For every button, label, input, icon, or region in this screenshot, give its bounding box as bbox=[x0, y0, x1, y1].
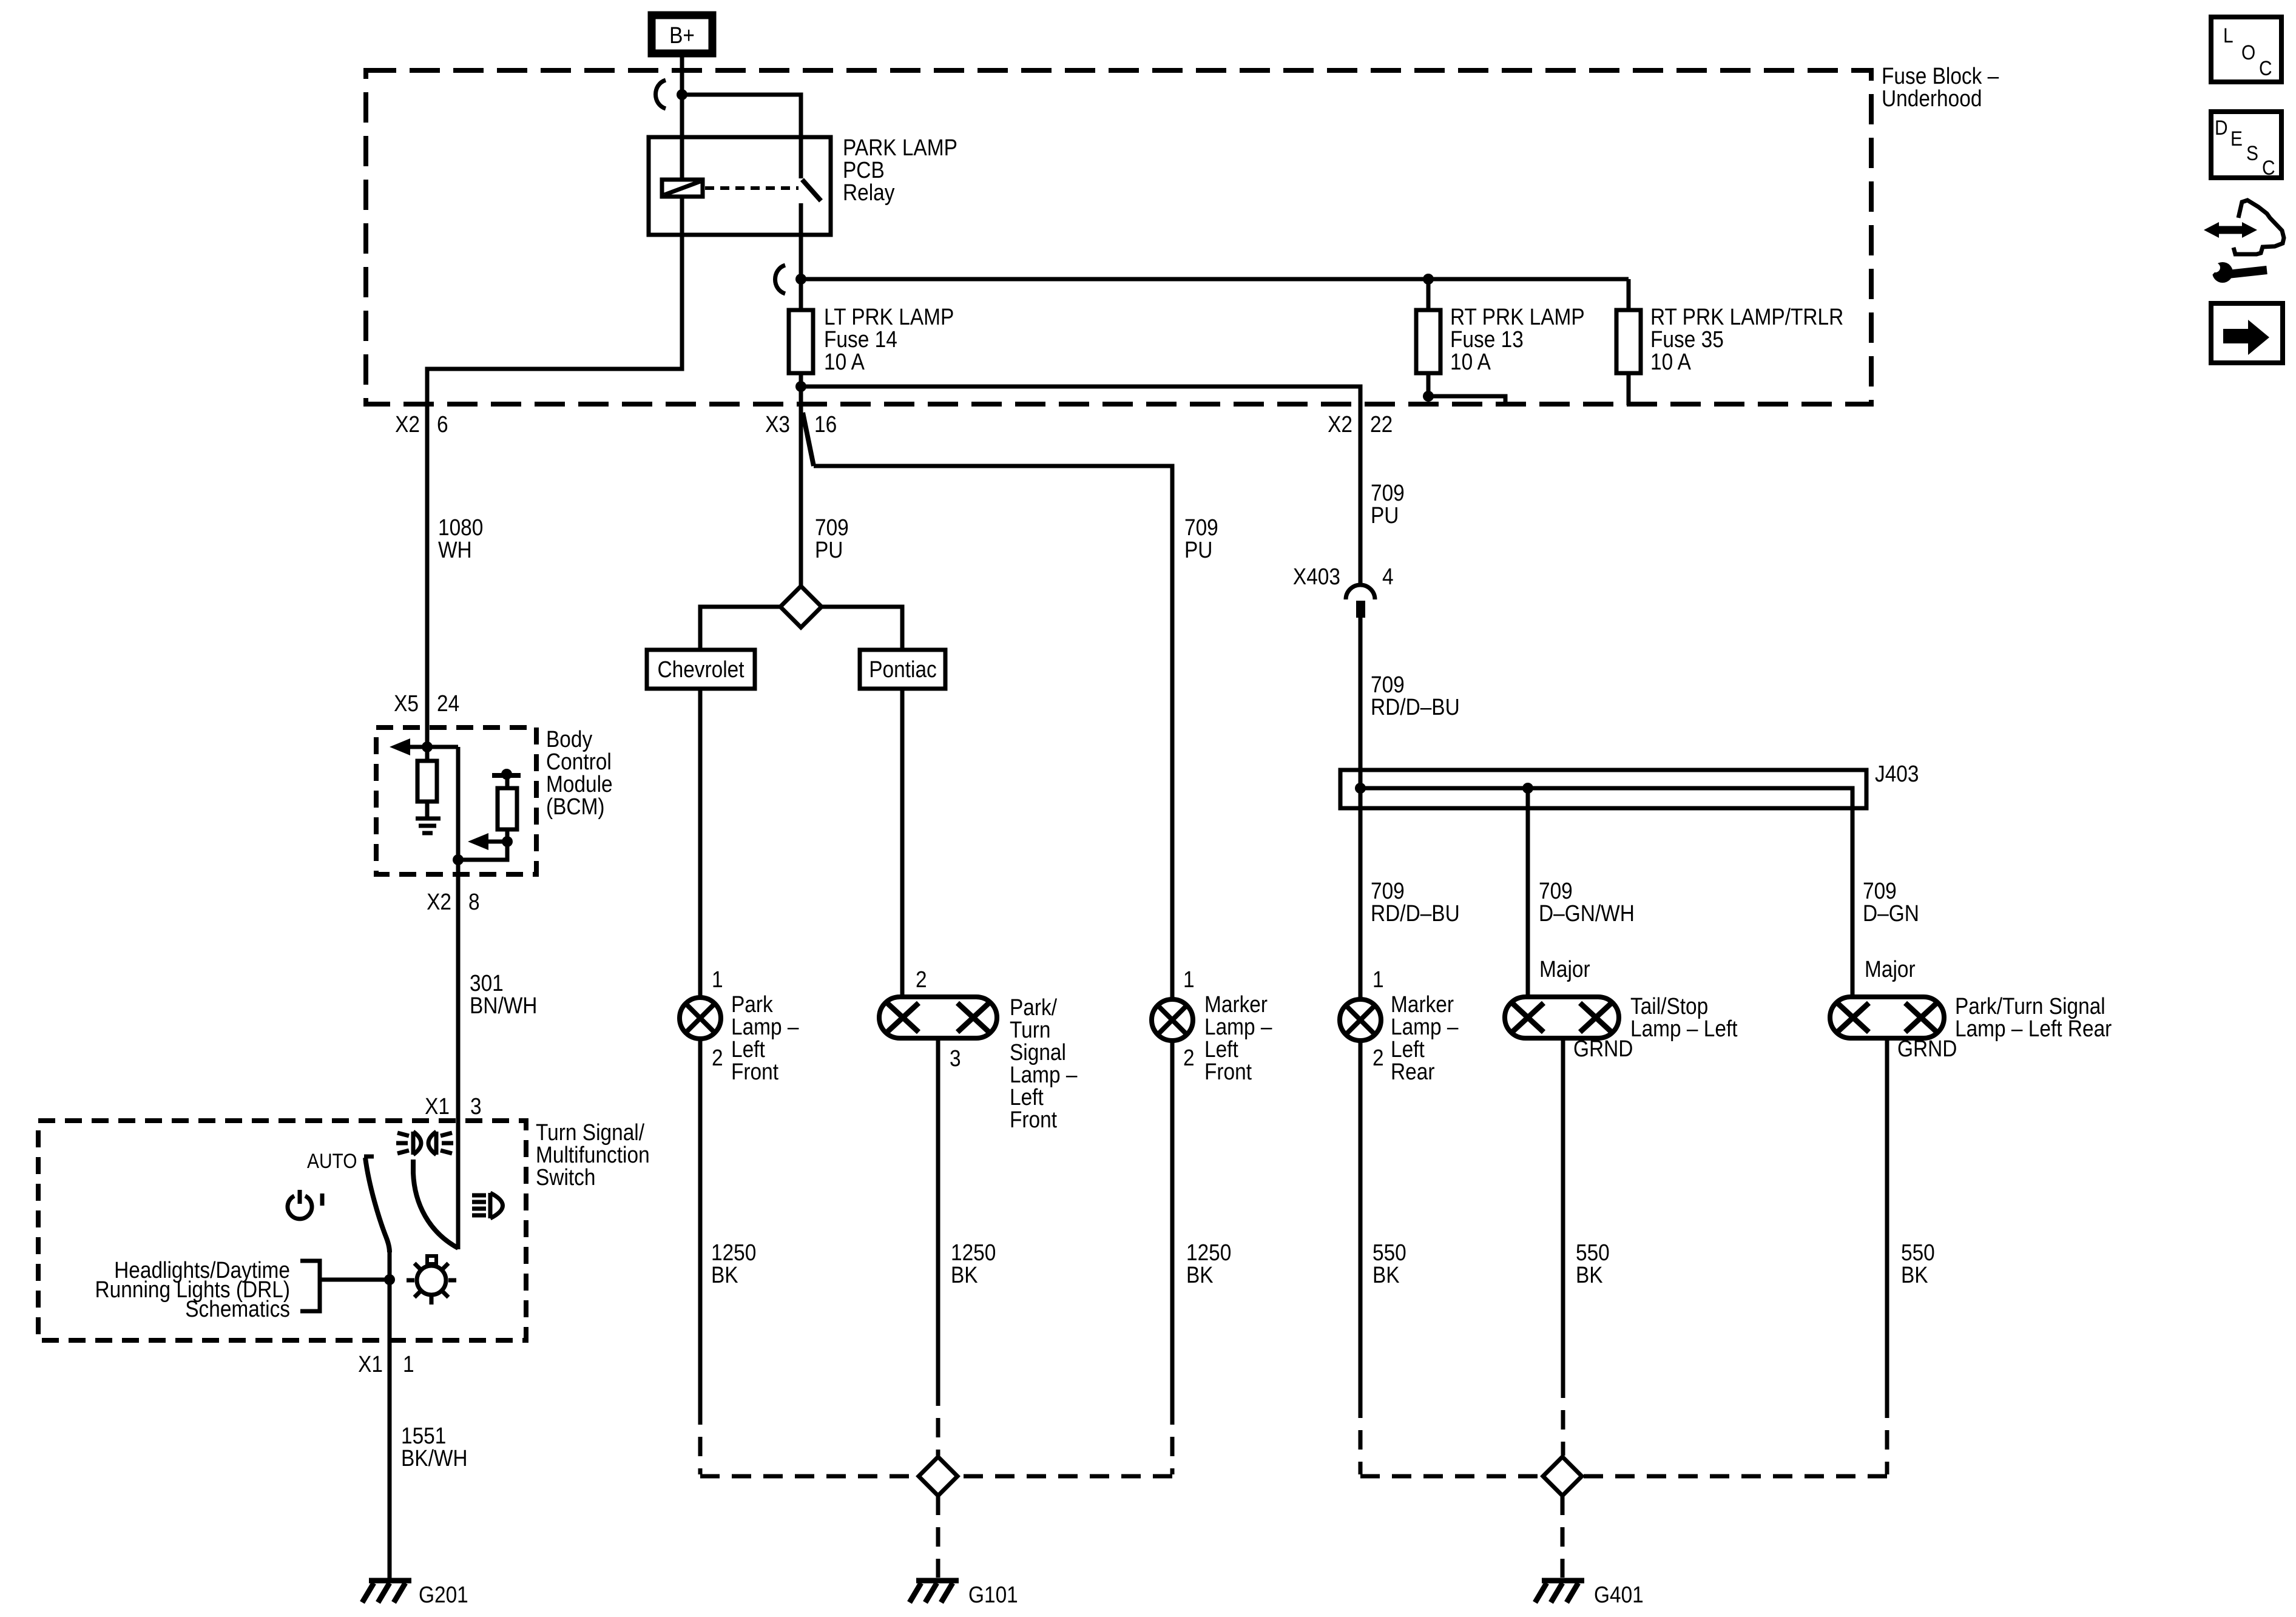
svg-text:BK: BK bbox=[1373, 1262, 1400, 1288]
label Tail/Stop Lamp - Left bbox=[1630, 993, 1738, 1041]
label wire 1551 BK/WH bbox=[401, 1423, 468, 1471]
svg-text:B+: B+ bbox=[669, 22, 695, 48]
relay switch arm bbox=[802, 180, 821, 201]
node J403 left bbox=[1355, 783, 1366, 794]
node relay output junction bbox=[795, 274, 806, 285]
label wire 709 D-GN bbox=[1863, 878, 1919, 926]
wire BCM junction to output leg bbox=[427, 745, 458, 749]
connector label X2 pin 6 bbox=[395, 411, 448, 437]
wire dashed rear marker to G401 splice bbox=[1360, 1399, 1543, 1476]
wire relay switch output to fuse 14 bbox=[799, 203, 803, 310]
svg-text:10 A: 10 A bbox=[824, 349, 865, 374]
option box Pontiac bbox=[860, 650, 945, 689]
wire dashed front marker to G101 splice bbox=[957, 1405, 1172, 1476]
svg-text:BK: BK bbox=[711, 1262, 738, 1288]
arrow BCM signal out bbox=[468, 833, 507, 850]
node fuse 13 tap bbox=[1423, 274, 1434, 285]
label wire 1250 BK chevrolet bbox=[711, 1240, 756, 1288]
wire fuse 14 node to X2 22 exit bbox=[801, 387, 1360, 584]
svg-text:X1: X1 bbox=[358, 1351, 383, 1377]
svg-text:AUTO: AUTO bbox=[307, 1149, 357, 1172]
svg-text:BK: BK bbox=[951, 1262, 978, 1288]
hook symbol at relay output junction bbox=[775, 265, 786, 294]
svg-text:PU: PU bbox=[815, 537, 843, 562]
connector X3 double-crimp slash bbox=[803, 413, 814, 466]
svg-text:D: D bbox=[2215, 116, 2228, 139]
svg-text:Lamp – Left: Lamp – Left bbox=[1630, 1016, 1738, 1041]
splice diamond G101 collector bbox=[919, 1457, 957, 1496]
svg-text:C: C bbox=[2259, 56, 2272, 79]
svg-text:X2: X2 bbox=[395, 411, 420, 437]
svg-text:Major: Major bbox=[1539, 956, 1590, 982]
wire splice to Pontiac bbox=[822, 607, 902, 650]
label Marker Lamp - Left Front bbox=[1204, 991, 1272, 1084]
label wire 709 PU right bbox=[1371, 480, 1405, 528]
svg-text:4: 4 bbox=[1382, 564, 1394, 589]
splice pack J403 bbox=[1340, 770, 1866, 997]
ground G101 bbox=[910, 1581, 959, 1602]
icon wrench bbox=[2202, 257, 2267, 283]
svg-text:Relay: Relay bbox=[843, 180, 895, 205]
Fuse Block - Underhood dashed box bbox=[366, 70, 1871, 404]
wire resistor to signal ground bbox=[425, 802, 430, 817]
icon DESC box bbox=[2211, 112, 2281, 179]
svg-text:Chevrolet: Chevrolet bbox=[657, 657, 744, 682]
label wire 709 PU center bbox=[815, 515, 849, 562]
svg-text:BK: BK bbox=[1186, 1262, 1214, 1288]
svg-text:X403: X403 bbox=[1293, 564, 1340, 589]
headlamps on icon bbox=[472, 1193, 503, 1218]
svg-text:E: E bbox=[2230, 127, 2243, 150]
label wire 550 BK middle bbox=[1576, 1240, 1610, 1288]
Turn Signal / Multifunction Switch dashed box bbox=[38, 1121, 526, 1340]
wire to right fuses 13 and 35 bbox=[801, 277, 1629, 282]
label fuse 35 bbox=[1650, 304, 1843, 374]
svg-text:Pontiac: Pontiac bbox=[869, 657, 937, 682]
icon LOC box bbox=[2211, 17, 2281, 82]
svg-text:X2: X2 bbox=[1328, 411, 1352, 437]
svg-text:1: 1 bbox=[403, 1351, 414, 1377]
svg-text:L: L bbox=[2223, 24, 2234, 47]
wire BCM output junction to resistor 2 bbox=[458, 842, 507, 860]
svg-text:BK: BK bbox=[1901, 1262, 1928, 1288]
svg-text:2: 2 bbox=[916, 967, 927, 992]
fuse F14 LT PRK LAMP bbox=[789, 310, 813, 373]
splice diamond G401 collector bbox=[1543, 1457, 1582, 1496]
ground G401 bbox=[1535, 1581, 1584, 1602]
wire rear marker to G401 bbox=[1359, 1041, 1363, 1399]
svg-text:2: 2 bbox=[1373, 1045, 1384, 1070]
label Headlights DRL Schematics bbox=[95, 1257, 290, 1322]
node resistor 2 bottom junction bbox=[502, 836, 513, 847]
icon connector shell bbox=[2234, 200, 2284, 254]
node below fuse 14 bbox=[795, 381, 806, 392]
label Turn Signal Multifunction Switch bbox=[536, 1119, 650, 1190]
signal ground symbol in BCM bbox=[416, 819, 441, 833]
ground G201 bbox=[362, 1581, 411, 1602]
wire B+ junction to relay switch contact bbox=[682, 95, 801, 178]
label Body Control Module (BCM) bbox=[546, 726, 613, 819]
label wire 1080 WH bbox=[438, 515, 483, 562]
svg-text:PU: PU bbox=[1184, 537, 1212, 562]
wire tail/stop to G401 bbox=[1561, 1038, 1565, 1379]
wire to DRL schematics reference bbox=[320, 1278, 390, 1282]
svg-text:G101: G101 bbox=[968, 1582, 1018, 1607]
svg-text:1: 1 bbox=[1373, 967, 1384, 992]
connector label X2 pin 22 bbox=[1328, 411, 1393, 437]
label wire 709 PU front marker bbox=[1184, 515, 1218, 562]
svg-text:3: 3 bbox=[470, 1093, 482, 1119]
svg-text:Front: Front bbox=[1010, 1107, 1057, 1132]
svg-text:GRND: GRND bbox=[1897, 1036, 1957, 1061]
label fuse 13 bbox=[1450, 304, 1585, 374]
svg-text:X5: X5 bbox=[394, 690, 419, 716]
connector label X1 pin 3 bbox=[425, 1093, 482, 1119]
svg-text:BN/WH: BN/WH bbox=[470, 993, 537, 1018]
svg-text:Switch: Switch bbox=[536, 1164, 595, 1190]
wire BCM output leg down bbox=[456, 747, 461, 874]
svg-text:PU: PU bbox=[1371, 502, 1399, 528]
headlamp flash icon left lamp bbox=[413, 1132, 421, 1155]
svg-text:X1: X1 bbox=[425, 1093, 450, 1119]
node BCM input junction bbox=[422, 741, 433, 752]
svg-text:C: C bbox=[2262, 156, 2275, 179]
wire front marker to G101 bbox=[1170, 1041, 1175, 1405]
wire 1551 BK/WH to ground bbox=[388, 1340, 392, 1561]
node B+ junction bbox=[677, 89, 687, 100]
switch contact arc from flash position bbox=[413, 1160, 458, 1248]
svg-text:22: 22 bbox=[1370, 411, 1393, 437]
svg-text:RD/D–BU: RD/D–BU bbox=[1371, 694, 1460, 720]
svg-text:BK: BK bbox=[1576, 1262, 1603, 1288]
label Park/Turn Signal Lamp - Left Front bbox=[1010, 994, 1078, 1132]
node BCM output junction bbox=[453, 854, 464, 865]
lamp Tail/Stop Lamp - Left bbox=[1505, 997, 1619, 1038]
switch lever bbox=[364, 1156, 390, 1252]
label wire 709 RD/D-BU upper bbox=[1371, 672, 1460, 720]
splice diamond S front bbox=[780, 586, 822, 627]
wire branch to front marker lamp bbox=[814, 466, 1172, 999]
wire fuse 13 bottom exit bbox=[1428, 373, 1505, 405]
label Park Lamp - Left Front bbox=[731, 991, 799, 1084]
svg-text:X3: X3 bbox=[765, 411, 790, 437]
node switch common junction bbox=[384, 1274, 395, 1285]
svg-text:Underhood: Underhood bbox=[1882, 86, 1982, 111]
svg-text:G401: G401 bbox=[1594, 1582, 1644, 1607]
svg-text:D–GN/WH: D–GN/WH bbox=[1539, 900, 1635, 926]
wire switch input bbox=[456, 1121, 461, 1249]
BCM internal voltage T-bar bbox=[492, 769, 521, 788]
label Park/Turn Signal Lamp - Left Rear bbox=[1955, 993, 2112, 1041]
svg-text:S: S bbox=[2246, 141, 2258, 164]
node below fuse 13 bbox=[1423, 391, 1434, 402]
svg-text:16: 16 bbox=[814, 411, 837, 437]
svg-text:1: 1 bbox=[1183, 967, 1195, 992]
parking lamps icon bbox=[407, 1256, 456, 1305]
label fuse 14 bbox=[824, 304, 954, 374]
arrow BCM signal in bbox=[390, 738, 427, 755]
svg-text:Rear: Rear bbox=[1391, 1059, 1435, 1084]
svg-text:2: 2 bbox=[712, 1045, 723, 1070]
fuse F35 RT PRK LAMP/TRLR bbox=[1616, 310, 1641, 373]
DRL reference bracket bbox=[300, 1261, 320, 1311]
label wire 550 BK left bbox=[1373, 1240, 1406, 1288]
wire Pontiac to park/turn lamp bbox=[900, 689, 905, 997]
resistor BCM pull-down bbox=[417, 761, 437, 802]
svg-text:BK/WH: BK/WH bbox=[401, 1445, 468, 1471]
svg-text:D–GN: D–GN bbox=[1863, 900, 1919, 926]
label wire 550 BK right bbox=[1901, 1240, 1935, 1288]
lamp Marker Lamp - Left Front bbox=[1152, 999, 1193, 1041]
label Marker Lamp - Left Rear bbox=[1391, 991, 1459, 1084]
wire Chevrolet to park lamp bbox=[698, 689, 703, 998]
label wire 709 D-GN/WH bbox=[1539, 878, 1635, 926]
wire fuse 13 top bbox=[1427, 279, 1431, 310]
wire 1080 WH to BCM bbox=[425, 405, 430, 727]
wire fuse 35 bottom exit bbox=[1627, 373, 1631, 405]
icon double arrow bbox=[2204, 222, 2257, 238]
connector label X403 pin 4 bbox=[1293, 564, 1394, 589]
wire park lamp to G101 bbox=[698, 1039, 703, 1405]
wire fuse 14 to splice and X3 16 exit bbox=[799, 373, 803, 586]
svg-text:J403: J403 bbox=[1875, 761, 1919, 786]
resistor BCM pull-up bbox=[498, 788, 517, 842]
svg-text:1: 1 bbox=[712, 967, 723, 992]
wire dashed G101 splice to ground bbox=[936, 1496, 940, 1578]
label wire 1250 BK marker bbox=[1186, 1240, 1231, 1288]
svg-text:GRND: GRND bbox=[1573, 1036, 1633, 1061]
wire 709 RD/D-BU to J403 bbox=[1359, 617, 1363, 999]
label wire 301 BN/WH bbox=[470, 970, 537, 1018]
wire switch common down bbox=[388, 1252, 392, 1340]
connector label X5 pin 24 bbox=[394, 690, 459, 716]
hook symbol at B+ junction bbox=[656, 80, 666, 109]
wire B+ to relay coil bbox=[680, 53, 684, 180]
label wire 1250 BK pontiac bbox=[951, 1240, 996, 1288]
wire fuse 35 top bbox=[1627, 279, 1631, 310]
wire dashed to G201 bbox=[388, 1561, 392, 1579]
fuse F13 RT PRK LAMP bbox=[1416, 310, 1440, 373]
svg-text:10 A: 10 A bbox=[1650, 349, 1691, 374]
wire dashed park/turn to G101 splice bbox=[936, 1386, 940, 1456]
wire BCM input to resistor bbox=[425, 727, 430, 763]
wire J403 to tail/stop lamp bbox=[1526, 788, 1530, 997]
lamp Marker Lamp - Left Rear bbox=[1340, 999, 1381, 1041]
svg-text:WH: WH bbox=[438, 537, 472, 562]
connector X403 symbol bbox=[1346, 585, 1375, 618]
svg-text:O: O bbox=[2241, 41, 2255, 64]
svg-text:10 A: 10 A bbox=[1450, 349, 1491, 374]
wire splice to Chevrolet bbox=[700, 607, 780, 650]
svg-text:Front: Front bbox=[1204, 1059, 1252, 1084]
svg-text:RD/D–BU: RD/D–BU bbox=[1371, 900, 1460, 926]
svg-text:Major: Major bbox=[1865, 956, 1916, 982]
B+ power node bbox=[652, 15, 712, 53]
svg-text:8: 8 bbox=[468, 889, 480, 914]
wire dashed tail/stop to G401 splice bbox=[1561, 1379, 1565, 1456]
wire relay coil to X2 pin 6 exit bbox=[427, 197, 682, 405]
relay coil-switch dashed link bbox=[705, 186, 799, 190]
wire dashed park lamp to G101 splice bbox=[700, 1405, 919, 1476]
lamp Park Lamp - Left Front bbox=[680, 998, 721, 1039]
label PARK LAMP PCB Relay bbox=[843, 135, 957, 205]
connector label X1 pin 1 bbox=[358, 1351, 414, 1377]
wire 301 BN/WH to switch bbox=[456, 874, 461, 1121]
svg-text:(BCM): (BCM) bbox=[546, 794, 605, 819]
svg-text:24: 24 bbox=[437, 690, 459, 716]
wire park/turn lamp to G101 bbox=[936, 1038, 940, 1386]
svg-text:Front: Front bbox=[731, 1059, 778, 1084]
headlamp flash icon rays bbox=[396, 1133, 453, 1153]
connector label X2 pin 8 bbox=[427, 889, 480, 914]
label wire 709 RD/D-BU lower bbox=[1371, 878, 1460, 926]
option box Chevrolet bbox=[647, 650, 755, 689]
relay coil bbox=[662, 180, 703, 197]
lamp Park/Turn Signal Lamp - Left Rear bbox=[1830, 997, 1944, 1038]
relay K: PARK LAMP PCB Relay box bbox=[649, 137, 831, 235]
wire dashed G401 splice to ground bbox=[1561, 1496, 1565, 1578]
headlamp flash icon right lamp bbox=[428, 1132, 436, 1155]
svg-text:6: 6 bbox=[437, 411, 448, 437]
node J403 middle bbox=[1522, 783, 1533, 794]
power mode icon bbox=[288, 1190, 322, 1219]
wire park/turn rear to G401 bbox=[1885, 1038, 1889, 1399]
svg-text:3: 3 bbox=[950, 1045, 961, 1071]
svg-text:Schematics: Schematics bbox=[185, 1296, 290, 1322]
label Fuse Block - Underhood bbox=[1882, 63, 1999, 111]
icon arrow box bbox=[2211, 303, 2283, 363]
wire dashed park/turn rear to G401 splice bbox=[1582, 1399, 1887, 1476]
BCM dashed box bbox=[376, 727, 536, 874]
lamp Park/Turn Signal Lamp - Left Front bbox=[879, 997, 997, 1038]
svg-text:G201: G201 bbox=[419, 1582, 468, 1607]
svg-text:X2: X2 bbox=[427, 889, 451, 914]
svg-text:2: 2 bbox=[1183, 1045, 1195, 1070]
svg-text:Lamp – Left Rear: Lamp – Left Rear bbox=[1955, 1016, 2112, 1041]
connector label X3 pin 16 bbox=[765, 411, 837, 437]
